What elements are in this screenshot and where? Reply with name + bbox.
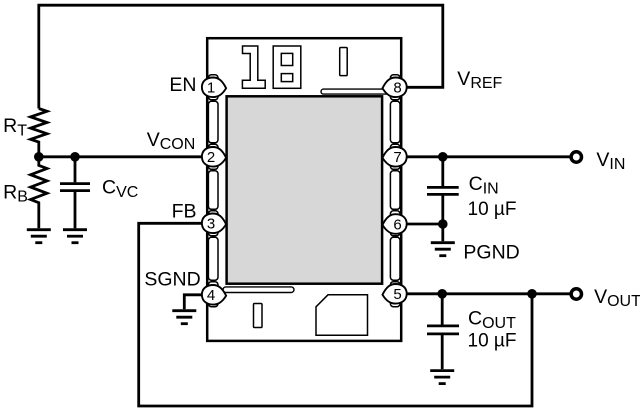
terminal VOUT open circle	[571, 289, 581, 299]
marking digit 1	[242, 46, 265, 88]
wire VREF loop from pin 8 up over the top and down to RT	[39, 5, 443, 108]
marking bottom slot bar	[254, 304, 263, 328]
marking top slot bar	[340, 48, 348, 76]
pin 1 balloon	[202, 78, 226, 98]
svg-text:VREF: VREF	[457, 68, 502, 92]
pad tab pin 2	[208, 144, 218, 169]
svg-text:10 µF: 10 µF	[468, 199, 517, 220]
pin 4 balloon	[202, 285, 226, 305]
ground SGND	[172, 311, 196, 324]
wire FB loop: pin 3 left, down, along bottom, up to VOUT line	[139, 223, 532, 406]
svg-text:7: 7	[393, 149, 401, 166]
node RT/RB junction	[34, 152, 44, 162]
svg-text:VOUT: VOUT	[594, 286, 640, 310]
pad strip left between pins 1-2	[208, 101, 218, 143]
IC U1 package outline	[207, 38, 401, 341]
node CVC top junction	[70, 152, 80, 162]
pad tab pin 7	[390, 144, 400, 169]
wire VCON from RT/RB node to pin 2	[39, 155, 204, 158]
terminal VIN open circle	[571, 152, 581, 162]
wire VOUT from pin 5 to terminal	[404, 292, 570, 295]
capacitor COUT	[427, 294, 459, 369]
pad strip right between pins 6-5	[390, 237, 400, 280]
svg-text:SGND: SGND	[144, 269, 200, 291]
svg-text:VCON: VCON	[147, 129, 196, 153]
ground below RB	[27, 230, 51, 243]
marking chamfered rectangle	[316, 295, 368, 336]
svg-text:8: 8	[393, 80, 401, 97]
pad strip left between pins 2-3	[208, 171, 218, 210]
capacitor CIN	[427, 157, 459, 224]
capacitor CVC	[60, 157, 90, 229]
pad strip right between pins 8-7	[390, 101, 400, 143]
pin 6 balloon	[383, 214, 407, 234]
marking digit 8	[273, 46, 301, 88]
svg-text:VIN: VIN	[596, 149, 625, 173]
svg-text:CVC: CVC	[102, 177, 138, 201]
svg-text:COUT: COUT	[468, 308, 516, 332]
svg-text:FB: FB	[172, 200, 197, 222]
thermal pad (grey)	[227, 96, 383, 283]
pad tab pin 3	[208, 211, 218, 236]
wire VIN from pin 7 to terminal	[404, 155, 570, 158]
resistor RT	[31, 109, 47, 159]
ground COUT	[430, 371, 454, 384]
pad tab pin 6	[390, 211, 400, 236]
pad tab pin 1	[208, 75, 218, 100]
pad strip left between pins 3-4	[208, 237, 218, 280]
svg-text:EN: EN	[169, 74, 196, 96]
pin 3 balloon	[202, 214, 226, 234]
svg-text:PGND: PGND	[463, 242, 519, 264]
svg-text:CIN: CIN	[469, 173, 499, 197]
pad tab pin 8	[390, 75, 400, 100]
pin 5 balloon	[383, 284, 407, 304]
pad tab pin 5	[390, 282, 400, 307]
svg-text:2: 2	[207, 149, 215, 166]
node CIN top junction	[438, 152, 448, 162]
resistor RB	[31, 157, 47, 229]
pin 8 balloon	[383, 78, 407, 98]
svg-text:RT: RT	[3, 115, 27, 139]
thermal pad tab near pin 8	[321, 89, 391, 94]
ground below CVC	[63, 230, 87, 243]
svg-text:3: 3	[207, 216, 215, 233]
wire PGND node down to ground	[441, 224, 444, 241]
node VOUT feedback junction	[527, 289, 537, 299]
wire SGND elbow from pin 4	[184, 295, 203, 310]
node COUT top junction	[437, 289, 447, 299]
pad strip right between pins 7-6	[390, 171, 400, 210]
wire pin 6 to PGND node	[404, 223, 443, 226]
svg-text:4: 4	[207, 287, 215, 304]
svg-text:RB: RB	[3, 181, 28, 205]
node PGND junction	[438, 219, 448, 229]
pin 7 balloon	[383, 147, 407, 167]
svg-text:6: 6	[393, 216, 401, 233]
svg-text:5: 5	[393, 286, 401, 303]
thermal pad tab near pin 4	[223, 287, 294, 293]
ground PGND	[431, 243, 455, 256]
pad tab pin 4	[208, 282, 218, 307]
svg-text:10 µF: 10 µF	[468, 331, 517, 352]
pin 2 balloon	[202, 147, 226, 167]
svg-text:1: 1	[207, 80, 215, 97]
